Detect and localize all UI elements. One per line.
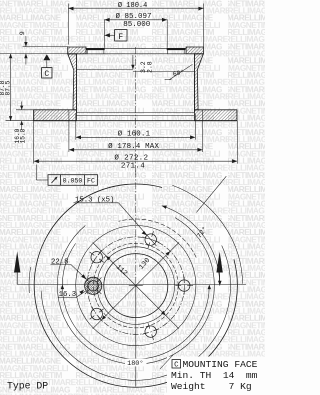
radial extension line for 72° dimension bbox=[196, 176, 226, 212]
friction band inner circle bbox=[41, 246, 230, 381]
cavity floor lines bbox=[76, 111, 194, 113]
dimension 16.0/15.8 bbox=[6, 102, 34, 144]
dimension Ø85.097/85.000 bbox=[104, 12, 167, 48]
svg-text:2.8: 2.8 bbox=[147, 61, 154, 73]
svg-text:C: C bbox=[44, 70, 49, 79]
section arrow left bbox=[14, 252, 20, 285]
svg-text:Type DP: Type DP bbox=[7, 381, 48, 392]
circle Ø112 (dashed) bbox=[94, 243, 179, 328]
drum max circle Ø178.4 (dashed) bbox=[119, 219, 197, 257]
180° label bbox=[125, 359, 147, 367]
disc outer edge right bbox=[236, 110, 238, 121]
drum interior ceiling right bbox=[133, 71, 195, 73]
svg-text:C: C bbox=[174, 362, 179, 370]
svg-text:Weight 7 Kg: Weight 7 Kg bbox=[171, 381, 252, 392]
dimension Ø272.2 / 271.4 bbox=[34, 121, 238, 171]
svg-text:87.5: 87.5 bbox=[4, 80, 11, 95]
hub web bottom line between pads bbox=[86, 53, 186, 55]
dimension Ø160.1 bbox=[76, 114, 196, 140]
sectioned hole at 180° (hatched) bbox=[85, 277, 102, 294]
friction ring right (hatched) bbox=[194, 110, 237, 121]
hat rim top face line bbox=[23, 46, 69, 48]
friction ring left (hatched) bbox=[34, 110, 77, 121]
bolt hole at 72° bbox=[142, 231, 159, 248]
svg-text:9: 9 bbox=[19, 31, 26, 35]
datum C flag bbox=[42, 54, 52, 79]
bolt hole at 288° bbox=[142, 323, 159, 340]
svg-text:Min. TH 14 mm: Min. TH 14 mm bbox=[171, 370, 258, 381]
dimension 9 (hat height above mounting face) bbox=[19, 31, 27, 64]
feature control frame: runout 0.050 FC bbox=[36, 165, 97, 186]
svg-text:0.050: 0.050 bbox=[63, 178, 83, 185]
outer reference circle bbox=[172, 185, 242, 284]
hub pilot pad left (thick top edge) bbox=[87, 48, 104, 54]
friction ring bottom line bbox=[34, 120, 237, 122]
svg-text:15.3 (x5): 15.3 (x5) bbox=[75, 196, 114, 204]
60° chamfer annotation bbox=[165, 64, 193, 79]
centerline (section view) bbox=[135, 47, 137, 177]
hub pilot pad right bbox=[168, 48, 185, 54]
svg-text:15.8: 15.8 bbox=[20, 128, 27, 143]
dimension 87.8/87.5 bbox=[0, 54, 12, 121]
72° dimension arc bbox=[162, 206, 220, 286]
hat section: right wall (hatched) bbox=[194, 54, 203, 110]
hub web top line bbox=[86, 47, 186, 49]
mounting face info block bbox=[160, 355, 265, 395]
leader 22.8 bbox=[51, 258, 87, 279]
hat section: left wall (hatched) bbox=[68, 54, 77, 110]
leader 15.3 (x5) bbox=[74, 196, 157, 246]
disc outer circle Ø272 bbox=[34, 184, 237, 387]
vertical centerline bottom view bbox=[135, 171, 137, 286]
svg-text:Ø 160.1: Ø 160.1 bbox=[118, 129, 151, 138]
inner band circle bbox=[57, 218, 214, 364]
diameter dimension line Ø112 (NW-SE diagonal) bbox=[93, 243, 179, 329]
svg-text:271.4: 271.4 bbox=[121, 163, 145, 171]
bolt hole at 216° bbox=[90, 307, 104, 321]
svg-text:Ø 272.2: Ø 272.2 bbox=[114, 154, 148, 163]
dimension Ø178.4 MAX bbox=[69, 110, 203, 152]
disc outer edge left bbox=[33, 110, 35, 121]
datum F flag bbox=[104, 30, 127, 43]
section arrow right bbox=[216, 252, 222, 285]
hub pad circle bbox=[97, 247, 175, 325]
angular dimension 180° arc bbox=[61, 243, 211, 359]
section cut line horizontal bbox=[17, 283, 246, 285]
center mark bbox=[129, 285, 143, 287]
drum inner wall left bbox=[75, 54, 77, 113]
leader 16.3 bbox=[58, 290, 86, 299]
mounting face line (datum C plane) bbox=[0, 53, 68, 55]
svg-text:Ø 178.4 MAX: Ø 178.4 MAX bbox=[108, 142, 159, 151]
svg-text:Ø 180.4: Ø 180.4 bbox=[118, 1, 147, 10]
dimension Ø180.4 top bbox=[68, 1, 203, 47]
drum interior ceiling left bbox=[76, 68, 132, 70]
svg-text:MOUNTING FACE: MOUNTING FACE bbox=[183, 359, 258, 370]
svg-text:F: F bbox=[118, 33, 123, 42]
drum inner wall right bbox=[193, 54, 195, 113]
bolt hole at 144° bbox=[90, 250, 104, 264]
bolt circle Ø130 (dash-dot) bbox=[87, 237, 184, 334]
brake disc hat section: left rim (hatched) bbox=[68, 47, 86, 54]
drum circle Ø160 bbox=[76, 226, 196, 346]
svg-text:85.000: 85.000 bbox=[123, 21, 151, 29]
diameter dimension line Ø130 (NE-SW diagonal) bbox=[93, 243, 179, 329]
svg-text:16.3: 16.3 bbox=[59, 291, 77, 299]
bolt hole at 0° bbox=[175, 277, 193, 295]
svg-text:180°: 180° bbox=[127, 359, 143, 368]
svg-text:FC: FC bbox=[87, 178, 95, 185]
hat section: right rim (hatched) bbox=[186, 47, 203, 54]
center bore Ø85 bbox=[104, 254, 168, 318]
svg-text:Ø 85.097: Ø 85.097 bbox=[115, 12, 151, 21]
dimension 3.2/2.8 step bbox=[131, 55, 153, 73]
